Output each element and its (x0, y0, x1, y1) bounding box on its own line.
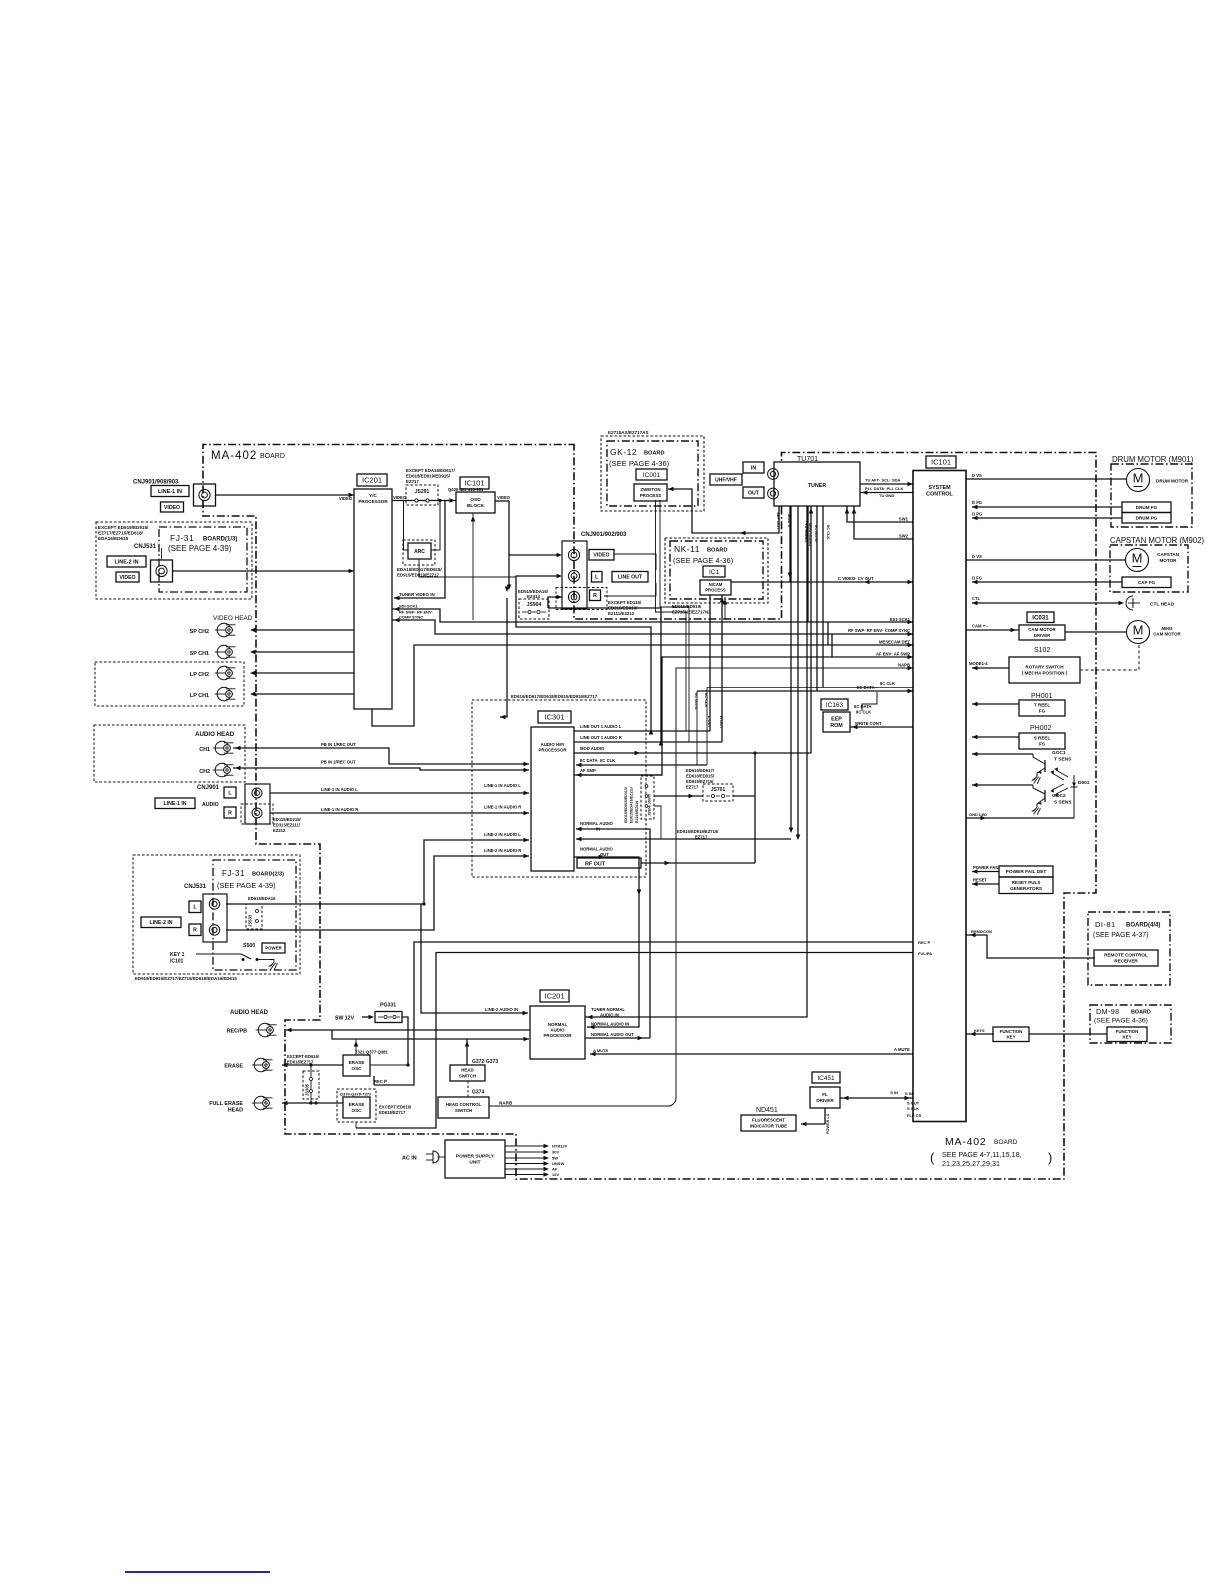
svg-text:21,23,25,27,29,31: 21,23,25,27,29,31 (942, 1159, 1000, 1168)
svg-text:ED615/ED617/: ED615/ED617/ (686, 768, 715, 773)
footer blue rule (125, 1571, 270, 1573)
wire OSD video out (495, 495, 511, 501)
svg-text:JS701: JS701 (711, 787, 726, 793)
svg-text:13V: 13V (552, 1172, 559, 1177)
wire tuner SW1 (845, 506, 913, 522)
label ED115 models (audio R) (273, 817, 302, 833)
svg-text:IN: IN (596, 827, 600, 832)
MA-402 board boundary (dash-dot outline) (203, 445, 1096, 1180)
wire LINE-2 AUDIO IN (421, 904, 528, 1015)
label G372-G373 (472, 1059, 498, 1065)
label L box (audio in) (224, 787, 236, 798)
wire D FG capstan (972, 576, 1122, 585)
label AUDIO HEAD (hifi) (195, 731, 235, 738)
wire bus elbow E01 (827, 622, 829, 645)
svg-text:NORMAL AUDIO IN: NORMAL AUDIO IN (591, 1022, 629, 1027)
label LINE-2 IN box (audio) (141, 917, 181, 928)
svg-text:): ) (1048, 1150, 1052, 1165)
svg-text:OSC: OSC (352, 1108, 363, 1113)
svg-text:KEY 1: KEY 1 (170, 952, 185, 958)
svg-text:SWITCH: SWITCH (455, 1108, 472, 1113)
label T321 Q377 Q381 (355, 1050, 388, 1055)
svg-text:FL: FL (822, 1092, 828, 1097)
svg-text:REC/PB: REC/PB (227, 1029, 247, 1035)
label models list below FJ-31(2/3) (135, 976, 237, 981)
svg-text:IC001: IC001 (643, 472, 661, 479)
svg-text:ED915/ED919/EZ715/: ED915/ED919/EZ715/ (677, 829, 719, 834)
wire MODE1-4 (969, 661, 1009, 670)
wire ZWEITON audio out B (660, 500, 689, 742)
svg-text:EZ717: EZ717 (406, 479, 419, 484)
photo-interrupter arrows T (1050, 767, 1068, 780)
wire NAPB bus to system control (489, 663, 913, 1107)
svg-text:T321·Q377·Q381: T321·Q377·Q381 (355, 1050, 388, 1055)
wire MESECAM DET bus (372, 640, 913, 727)
svg-text:M: M (1132, 551, 1143, 566)
block CAM MOTOR DRIVER (1019, 625, 1065, 640)
svg-text:RESET PULS: RESET PULS (1012, 880, 1041, 885)
svg-text:E2111/E2212: E2111/E2212 (608, 611, 635, 616)
video head LP CH1 (190, 687, 236, 701)
svg-text:IC101: IC101 (931, 458, 951, 467)
svg-text:BOARD: BOARD (994, 1139, 1018, 1146)
svg-text:5W: 5W (552, 1156, 558, 1161)
connector JS291 bypass jumper (406, 485, 438, 505)
svg-text:CAM MOTOR: CAM MOTOR (1153, 632, 1181, 637)
svg-text:FJ-31: FJ-31 (170, 533, 194, 543)
tuner TU701 block (774, 462, 860, 506)
svg-text:MESECAM DET: MESECAM DET (879, 640, 910, 645)
block CAP FG (1122, 577, 1171, 588)
wire REMOCON (966, 929, 1095, 958)
svg-text:LINE-2 IN: LINE-2 IN (149, 920, 172, 926)
label UHF/VHF box (710, 474, 742, 485)
svg-text:RESET: RESET (973, 878, 987, 883)
wire IC201 video out to OSD block (392, 498, 456, 503)
svg-text:DRUM PG: DRUM PG (1136, 515, 1158, 520)
NK-11 board title (673, 544, 734, 565)
label CNJ901/908/903 (133, 480, 179, 486)
svg-text:ZWEITON: ZWEITON (640, 487, 660, 492)
svg-text:OUT: OUT (748, 490, 760, 496)
wire NORMAL AUDIO OUT (IC201) (585, 1032, 650, 1040)
wire NICAM pin in (723, 597, 728, 619)
svg-text:DRIVER: DRIVER (1034, 633, 1051, 638)
svg-text:NARB: NARB (499, 1101, 513, 1106)
svg-text:ED919/ED915/EZ717/EZ715/ED61B/: ED919/ED915/EZ717/EZ715/ED61B/EDA16/ED61… (135, 976, 237, 981)
photo-interrupter arrows S (1050, 784, 1068, 797)
wire PSU output AF (505, 1167, 558, 1172)
wire ZWEITON audio out A (656, 500, 687, 731)
svg-text:SEP OUT: SEP OUT (776, 512, 781, 530)
wire MOD AUDIO through JS701 (654, 794, 755, 799)
svg-text:30V: 30V (552, 1150, 559, 1155)
svg-text:ED615/EDA16: ED615/EDA16 (248, 896, 276, 901)
block DRUM FG (1122, 502, 1171, 513)
FJ-31 board(1/3) title (168, 533, 237, 553)
connector line-out jack block (562, 541, 587, 609)
svg-text:KEY: KEY (1006, 1035, 1015, 1040)
wire T reel fg (972, 702, 1019, 707)
wire AF ENV AF SWP bus (574, 652, 913, 778)
connector CNJ531 video jack (151, 548, 173, 582)
svg-text:EDA16/ED615: EDA16/ED615 (98, 536, 129, 541)
svg-text:INDICATOR TUBE: INDICATOR TUBE (750, 1123, 787, 1128)
svg-text:NTR12V: NTR12V (552, 1144, 568, 1149)
svg-text:CAM MOTOR: CAM MOTOR (1028, 627, 1056, 632)
label R box (audio in) (224, 807, 236, 818)
microcontroller IC101 system control block (913, 471, 966, 1122)
connector JS904/JS905 vertical jumper (641, 776, 654, 819)
svg-text:EZ212: EZ212 (273, 828, 286, 833)
wire cam driver to motor (1065, 631, 1126, 633)
op-amp IC301 audio hifi processor block (531, 727, 574, 871)
svg-text:R: R (593, 593, 597, 599)
label CNJ901/902/903 (line out) (581, 532, 627, 538)
wire NICAM audio R down to IC301 area (796, 506, 801, 840)
connector JS533 vertical jumper (246, 904, 262, 929)
svg-text:(: ( (930, 1150, 935, 1165)
svg-text:EEP: EEP (831, 717, 842, 723)
IC451 reference label box (812, 1072, 840, 1083)
svg-text:SW 12V: SW 12V (335, 1016, 355, 1022)
label CNJ531 (video line-2) (134, 544, 157, 550)
wire full erase head to osc (282, 1101, 343, 1106)
svg-text:TU AUDIO: TU AUDIO (804, 523, 809, 542)
svg-text:WRITE CONT: WRITE CONT (855, 721, 882, 726)
NK-11 board inner dash-dot box (670, 541, 763, 599)
wire D VS capstan (966, 554, 1125, 560)
wire A MUTE (590, 1047, 913, 1056)
block FUNCTION KEY (DM-98) (1107, 1027, 1147, 1042)
wire NORMAL AUDIO IN (IC301) (576, 821, 650, 1038)
label L box (line out) (592, 572, 603, 583)
driver IC451 FL DRIVER block (810, 1087, 840, 1108)
svg-text:BOARD: BOARD (644, 451, 665, 457)
OSD block box (456, 492, 495, 513)
diode D001 LED (1071, 775, 1090, 818)
label rotated models list (JS904/905) (624, 787, 639, 823)
svg-text:PROCESSOR: PROCESSOR (543, 1033, 572, 1038)
svg-text:LINE-2 IN AUDIO L: LINE-2 IN AUDIO L (484, 832, 521, 837)
svg-text:BOARD(1/3): BOARD(1/3) (203, 537, 237, 543)
svg-text:DRUM MOTOR: DRUM MOTOR (1156, 479, 1189, 484)
svg-text:VIDEO: VIDEO (497, 495, 511, 500)
wire LINE-1 IN AUDIO R (270, 805, 529, 816)
svg-text:M: M (1133, 623, 1144, 638)
wire SEP OUT to ZWEITON (668, 487, 779, 536)
svg-text:DRUM MOTOR (M901): DRUM MOTOR (M901) (1112, 455, 1194, 464)
svg-text:IC1: IC1 (709, 569, 720, 576)
svg-text:A MUTE: A MUTE (894, 1047, 910, 1052)
svg-text:IIC DATA· IIC CLK: IIC DATA· IIC CLK (580, 758, 615, 763)
wire PSU output 5W (505, 1156, 558, 1161)
svg-text:IIC CLK: IIC CLK (856, 710, 871, 715)
label VIDEO box (line-2) (116, 572, 139, 582)
svg-text:AUDIO IN: AUDIO IN (600, 1013, 619, 1018)
wire SP CH1 to IC201 (250, 650, 354, 655)
svg-text:PH002: PH002 (1030, 725, 1052, 732)
svg-text:ED915/ED919/: ED915/ED919/ (672, 604, 702, 609)
svg-text:LINE-1 IN AUDIO R: LINE-1 IN AUDIO R (321, 807, 358, 812)
svg-text:OSD: OSD (470, 497, 481, 503)
svg-text:EXCEPT·ED616/: EXCEPT·ED616/ (379, 1105, 412, 1110)
wire IIC DATA vertical to IC301 (694, 691, 699, 765)
wire L jack feed (516, 574, 651, 731)
svg-text:TUNER: TUNER (808, 483, 827, 489)
wire LINE-1 IN AUDIO L (270, 783, 529, 795)
svg-text:S CLK: S CLK (907, 1106, 919, 1111)
svg-text:TU AFT· SCL· SDA: TU AFT· SCL· SDA (865, 478, 901, 483)
svg-text:RF SWP· RF ENV· COMP SYNC: RF SWP· RF ENV· COMP SYNC (848, 628, 910, 633)
svg-text:CTL HEAD: CTL HEAD (1150, 602, 1175, 608)
label R box (line-2 audio) (189, 924, 201, 936)
svg-text:EXCEPT·ED616/: EXCEPT·ED616/ (287, 1054, 320, 1059)
CAPSTAN MOTOR (M902) board box (1110, 536, 1205, 592)
wire function key link (1029, 1033, 1107, 1035)
label ED615/EDA16 (JS533) (248, 896, 276, 901)
IC163 reference label box (821, 699, 848, 710)
svg-text:PG331: PG331 (380, 1003, 396, 1009)
wire IIC DATA IIC CLK to IC301 (576, 758, 707, 767)
svg-text:ED616/ED617/ED618/ED915/ED919/: ED616/ED617/ED618/ED915/ED919/EZ717 (511, 694, 598, 699)
switch S500 POWER (170, 943, 285, 970)
NICAM PROCESS block (700, 580, 731, 595)
wire bus elbow RF-AF (831, 634, 833, 657)
switch HEAD SWITCH (450, 1065, 485, 1081)
block POWER FAIL DET (999, 866, 1053, 877)
wire RESET (972, 878, 999, 887)
svg-text:IC163: IC163 (826, 702, 844, 709)
DM-98 board box (1090, 1005, 1171, 1043)
label L box (line-2 audio) (189, 901, 201, 913)
wire VIDEO label to LINE OUT bracket (614, 554, 656, 570)
svg-text:VIDEO: VIDEO (164, 505, 180, 511)
wire tuner TU AUDIO down to normal audio processor (585, 506, 809, 1019)
memory IC163 EEP ROM block (823, 712, 850, 732)
svg-text:ED615/EDA16/EZ111/: ED615/EDA16/EZ111/ (630, 787, 634, 823)
block PH002 S REEL FS (1019, 733, 1065, 749)
wire NICAM audio L down to IC301 area (789, 506, 794, 833)
svg-text:L OUT: L OUT (707, 716, 712, 728)
wire PUL/PA line (356, 951, 932, 1128)
svg-text:NORMAL AUDIO: NORMAL AUDIO (580, 821, 614, 826)
svg-text:HEAD CONTROL: HEAD CONTROL (446, 1102, 482, 1107)
svg-text:IIC CLK: IIC CLK (704, 693, 709, 708)
GK-12 board outer dashed box (601, 436, 704, 511)
oscillator ERASE OSC 2 (dashed option) (337, 1089, 376, 1122)
svg-text:M: M (1133, 471, 1144, 486)
svg-text:ED618/ED919/ED915/: ED618/ED919/ED915/ (406, 474, 451, 479)
svg-text:BOARD(2/3): BOARD(2/3) (252, 872, 284, 878)
label models list (ARC) (397, 567, 442, 578)
label models list (JS701) (686, 768, 715, 790)
svg-text:CAPSTAN MOTOR (M902): CAPSTAN MOTOR (M902) (1110, 536, 1205, 545)
svg-text:AUDIO HEAD: AUDIO HEAD (230, 1010, 269, 1016)
svg-text:MOTOR: MOTOR (1159, 558, 1177, 563)
svg-text:LINE-1 IN AUDIO L: LINE-1 IN AUDIO L (484, 783, 521, 788)
svg-text:ED915/ED919/E2717: ED915/ED919/E2717 (397, 573, 440, 578)
transistor GOC1 T SENS (972, 750, 1072, 784)
label Q400-403 410-901 (448, 487, 484, 492)
svg-text:PLL DATA· PLL CLK: PLL DATA· PLL CLK (865, 486, 903, 491)
svg-text:ROM: ROM (830, 723, 843, 729)
svg-text:R: R (193, 928, 197, 934)
svg-text:TUNER VIDEO IN: TUNER VIDEO IN (399, 592, 435, 597)
IC031 reference label box (1027, 612, 1054, 623)
svg-text:NORMAL AUDIO: NORMAL AUDIO (580, 847, 614, 852)
svg-text:CAPSTAN: CAPSTAN (1157, 552, 1180, 557)
svg-text:FUNCTION: FUNCTION (1116, 1029, 1139, 1034)
GK-12 board title (609, 447, 670, 468)
svg-text:CAM +·-: CAM +·- (972, 624, 989, 629)
svg-text:(SEE PAGE 4-36): (SEE PAGE 4-36) (1094, 1018, 1148, 1025)
svg-text:AC IN: AC IN (402, 1156, 417, 1162)
svg-text:(SEE PAGE 4-36): (SEE PAGE 4-36) (673, 556, 734, 565)
svg-text:REC P̅: REC P̅ (918, 940, 931, 945)
svg-text:ERASE: ERASE (224, 1064, 243, 1070)
svg-text:REC P̅: REC P̅ (374, 1079, 387, 1084)
wire LINE OUT 1 AUDIO R (574, 735, 722, 746)
wire R label to LINE OUT bracket (604, 583, 656, 596)
svg-text:S SENS: S SENS (1054, 800, 1072, 806)
wire NORMAL AUDIO OUT (IC301) (574, 847, 641, 1030)
svg-text:FULL ERASE: FULL ERASE (209, 1101, 243, 1107)
FJ-31 board(1/3) inner dash-dot box (159, 527, 247, 592)
svg-text:ED919/EZ715/: ED919/EZ715/ (686, 779, 714, 784)
wire LINE OUT 1 AUDIO L (574, 724, 710, 735)
svg-text:VIDEO: VIDEO (393, 495, 407, 500)
svg-text:JS904·JS905: JS904·JS905 (648, 794, 652, 816)
svg-text:ROTARY SWITCH: ROTARY SWITCH (1025, 665, 1064, 670)
label E2715AS/E2717AS (608, 430, 649, 435)
svg-text:IIC DATA: IIC DATA (694, 693, 699, 710)
connector PG331 (375, 1003, 402, 1023)
svg-text:LINE-2 IN: LINE-2 IN (115, 559, 139, 565)
wire SDI-SCK1 from IC201 (392, 604, 913, 625)
wire IIC CLK vertical to IC301 (704, 688, 709, 766)
video head SP CH1 (190, 645, 236, 659)
svg-text:(SEE PAGE 4-39): (SEE PAGE 4-39) (217, 881, 276, 890)
svg-text:ED618/EZ717: ED618/EZ717 (379, 1110, 406, 1115)
wire D FG drum (972, 500, 1122, 509)
wire PG331 12V to erase osc (402, 1017, 410, 1067)
svg-text:PROCESS: PROCESS (640, 493, 662, 498)
svg-text:VIDEO: VIDEO (339, 496, 353, 501)
label EXCEPT models (erase) (287, 1054, 320, 1065)
wire POWER FAIL (972, 865, 999, 874)
wire head switch up (465, 1039, 470, 1065)
svg-text:NORMAL AUDIO OUT: NORMAL AUDIO OUT (591, 1032, 634, 1037)
svg-text:D VS: D VS (972, 554, 982, 559)
wire GND LED (966, 812, 1074, 820)
svg-text:AF: AF (552, 1167, 558, 1172)
svg-text:ED618/ED915/: ED618/ED915/ (686, 774, 715, 779)
svg-text:IC451: IC451 (817, 1075, 835, 1082)
wire LINE-2 IN AUDIO L (226, 832, 529, 906)
op-amp IC201 Y/C processor block (354, 489, 392, 709)
svg-text:REMOCON: REMOCON (971, 929, 992, 934)
label LINE OUT box (612, 572, 648, 583)
svg-text:ED618/EZ717: ED618/EZ717 (287, 1060, 314, 1065)
svg-text:TUNER NORMAL: TUNER NORMAL (591, 1007, 625, 1012)
svg-text:LINE-1 IN: LINE-1 IN (163, 801, 186, 807)
svg-text:EZ717: EZ717 (686, 785, 699, 790)
wire JS904/905 lower stub to normal audio in (654, 806, 661, 839)
connector JS904 jumper (519, 599, 549, 619)
svg-text:IIC DATA·: IIC DATA· (857, 685, 876, 690)
block FLUORESCENT INDICATOR TUBE (741, 1115, 796, 1131)
label EXCEPT models (full erase) (379, 1105, 412, 1116)
wire LINE-1 video to IC201 (216, 493, 355, 501)
svg-text:C VIDEO· CV OUT: C VIDEO· CV OUT (838, 576, 874, 581)
svg-text:FG: FG (1039, 709, 1046, 714)
svg-text:CNJ531: CNJ531 (184, 884, 207, 890)
svg-text:RECEIVER: RECEIVER (1114, 959, 1138, 964)
audio head ERASE (224, 1058, 272, 1072)
svg-text:ERASE: ERASE (349, 1060, 365, 1065)
IC201 reference label box (normal audio) (540, 990, 569, 1002)
wire head switch to control switch (dashed) (467, 1081, 469, 1097)
svg-text:CONTROL: CONTROL (926, 492, 953, 498)
IC301 reference label box (538, 711, 571, 723)
svg-text:T REEL: T REEL (1034, 703, 1051, 708)
svg-text:NORMAL: NORMAL (548, 1022, 568, 1027)
label LINE-1 IN box (audio) (155, 798, 219, 809)
label PH001 (1031, 693, 1053, 700)
svg-text:S500: S500 (243, 943, 255, 949)
wire EEPROM IIC bus tap (850, 692, 913, 729)
wire PLL DATA PLL CLK TU GND (860, 486, 913, 498)
svg-text:CNJ901/902/903: CNJ901/902/903 (581, 532, 627, 538)
wire ARC tap to line-out feed (419, 559, 516, 577)
label TU701 (797, 456, 818, 463)
svg-text:CNJ901/908/903: CNJ901/908/903 (133, 480, 179, 486)
svg-text:POWER FAIL DET: POWER FAIL DET (1006, 869, 1047, 875)
IC001 reference label box (636, 469, 667, 480)
svg-text:VIDEO: VIDEO (593, 553, 609, 559)
wire AF SMP to IC301 (576, 768, 662, 775)
svg-text:MODE1-4: MODE1-4 (969, 661, 988, 666)
svg-text:(SEE PAGE 4-37): (SEE PAGE 4-37) (1093, 932, 1149, 939)
svg-text:SYSTEM: SYSTEM (928, 485, 951, 491)
svg-text:LINE-1 IN AUDIO R: LINE-1 IN AUDIO R (484, 805, 521, 810)
wire TU AFT SCL SDA to system control (860, 478, 913, 487)
svg-text:TU GND: TU GND (879, 493, 894, 498)
wire OSD comp sync feed (471, 513, 476, 620)
IC1 reference label box (703, 566, 725, 577)
svg-text:T SENS: T SENS (1054, 757, 1072, 763)
svg-text:Y/C: Y/C (369, 493, 377, 498)
wire FL driver serial bus (840, 1090, 922, 1118)
svg-text:ED115/ED915/ED313/: ED115/ED915/ED313/ (624, 787, 628, 823)
GK-12 board inner dash-dot box (607, 441, 698, 506)
AC IN plug (402, 1151, 445, 1163)
svg-text:OSC: OSC (352, 1066, 363, 1071)
svg-text:VIDEO: VIDEO (119, 575, 135, 581)
wire KEY9 function key (966, 1028, 994, 1036)
switch HEAD CONTROL SWITCH (438, 1097, 489, 1118)
svg-text:BOARD: BOARD (1131, 1010, 1151, 1016)
svg-text:AUDIO: AUDIO (202, 802, 219, 808)
svg-text:DI-81: DI-81 (1095, 920, 1116, 929)
motor M901 drum motor (1127, 469, 1189, 492)
transistor GOC2 S SENS (972, 783, 1072, 815)
wire CTL head (972, 596, 1124, 605)
label VIDEO box (line out) (589, 550, 614, 561)
audio head FULL ERASE (209, 1096, 272, 1113)
video head LP CH2 (190, 666, 236, 680)
